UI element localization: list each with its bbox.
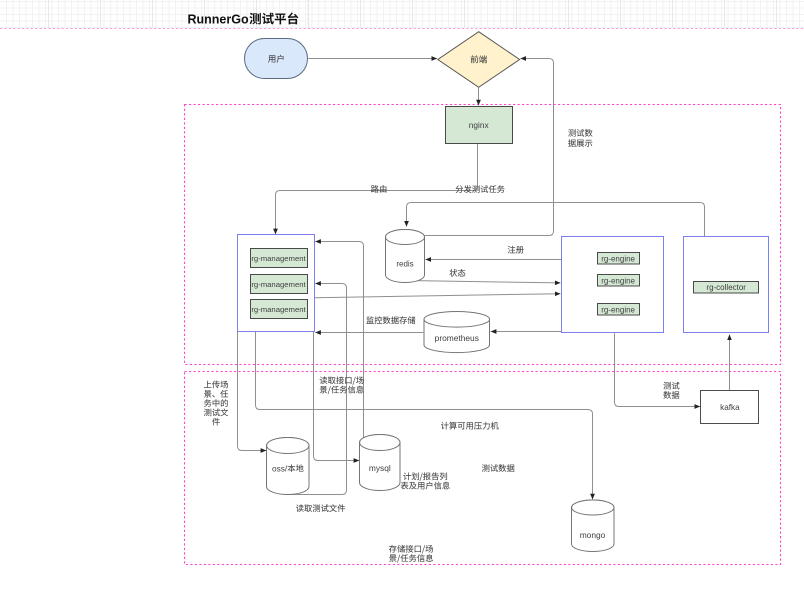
label 测试数据 (mongo) bbox=[482, 464, 515, 472]
container rg-management bbox=[238, 235, 315, 332]
svg-text:rg-collector: rg-collector bbox=[706, 283, 746, 292]
node 前端 (frontend diamond) bbox=[438, 32, 520, 88]
edge redis→前端 测试数据展示 bbox=[425, 59, 554, 236]
label 监控数据存储 bbox=[366, 316, 415, 324]
svg-text:nginx: nginx bbox=[469, 120, 490, 130]
svg-text:prometheus: prometheus bbox=[435, 333, 479, 343]
edge rg-management→mongo bbox=[256, 332, 593, 499]
svg-text:RunnerGo: RunnerGo bbox=[188, 12, 249, 26]
edge kafka→rg-collector bbox=[729, 335, 731, 390]
svg-text:mongo: mongo bbox=[580, 530, 606, 540]
edge rg-collector→redis bbox=[407, 203, 705, 237]
svg-text:rg-management: rg-management bbox=[251, 305, 306, 314]
edge rg-engine→redis 注册 bbox=[426, 259, 562, 261]
label 计算可用压力机 bbox=[441, 422, 499, 430]
container rg-collector bbox=[684, 237, 769, 333]
label 计划/报告列表及用户信息 bbox=[401, 472, 450, 489]
container rg-engine bbox=[562, 237, 664, 333]
label 分发测试任务 bbox=[456, 185, 505, 193]
svg-text:redis: redis bbox=[396, 259, 413, 268]
node rg-collector bbox=[694, 282, 759, 294]
node nginx bbox=[446, 107, 513, 144]
svg-text:rg-management: rg-management bbox=[251, 254, 306, 263]
edge rg-management→mysql bbox=[314, 332, 360, 461]
node oss/本地 cylinder bbox=[267, 437, 310, 494]
edge rg-engine→prometheus bbox=[491, 331, 561, 333]
node rg-management 3 bbox=[251, 300, 308, 319]
node prometheus cylinder bbox=[424, 312, 490, 353]
page divider gray dashed bbox=[307, 0, 309, 28]
edge nginx→rg-management 路由 bbox=[276, 144, 478, 234]
svg-text:oss/: oss/ bbox=[272, 463, 288, 473]
svg-text:rg-engine: rg-engine bbox=[601, 276, 635, 285]
edge oss→rg-management 读取测试文件 bbox=[286, 284, 347, 495]
svg-text:rg-engine: rg-engine bbox=[601, 254, 635, 263]
label 测试数据 (kafka) bbox=[663, 382, 679, 399]
edge rg-management→oss 上传测试文件 bbox=[238, 332, 267, 451]
node rg-engine 3 bbox=[598, 304, 640, 316]
node mysql cylinder bbox=[360, 434, 401, 490]
node rg-management 1 bbox=[251, 249, 308, 268]
edge rg-management→rg-engine bbox=[314, 294, 560, 298]
label 上传场景、任务中的测试文件 bbox=[204, 381, 228, 426]
label 测试数据展示 bbox=[568, 129, 592, 147]
dashed region 1 bbox=[185, 105, 781, 365]
edge mysql→rg-management bbox=[315, 242, 363, 438]
label 读取接口/场景/任务信息 bbox=[320, 376, 364, 394]
label 存储接口/场景/任务信息 bbox=[389, 545, 433, 563]
edge 前端→nginx bbox=[478, 88, 480, 106]
page break horizontal line bbox=[0, 28, 804, 30]
node redis cylinder bbox=[386, 230, 425, 283]
edge redis→rg-engine 状态 bbox=[414, 281, 560, 283]
grid band bbox=[0, 0, 804, 28]
node 用户 (user) bbox=[245, 39, 308, 79]
svg-text:kafka: kafka bbox=[720, 403, 740, 412]
edge rg-engine→kafka 测试数据 bbox=[615, 333, 701, 406]
svg-text:rg-engine: rg-engine bbox=[601, 305, 635, 314]
svg-text:mysql: mysql bbox=[369, 463, 391, 473]
edge 用户→前端 bbox=[308, 58, 437, 60]
label 路由 bbox=[371, 185, 386, 193]
node rg-engine 2 bbox=[598, 275, 640, 287]
node mongo cylinder bbox=[572, 500, 615, 552]
node kafka bbox=[701, 391, 759, 424]
node rg-management 2 bbox=[251, 275, 308, 294]
dashed region 2 bbox=[185, 372, 781, 565]
label 状态 bbox=[449, 269, 465, 277]
label 读取测试文件 bbox=[296, 504, 345, 512]
label 注册 bbox=[508, 246, 524, 254]
node rg-engine 1 bbox=[598, 253, 640, 265]
edge prometheus→rg-management 监控数据存储 bbox=[315, 332, 423, 334]
svg-text:rg-management: rg-management bbox=[251, 280, 306, 289]
